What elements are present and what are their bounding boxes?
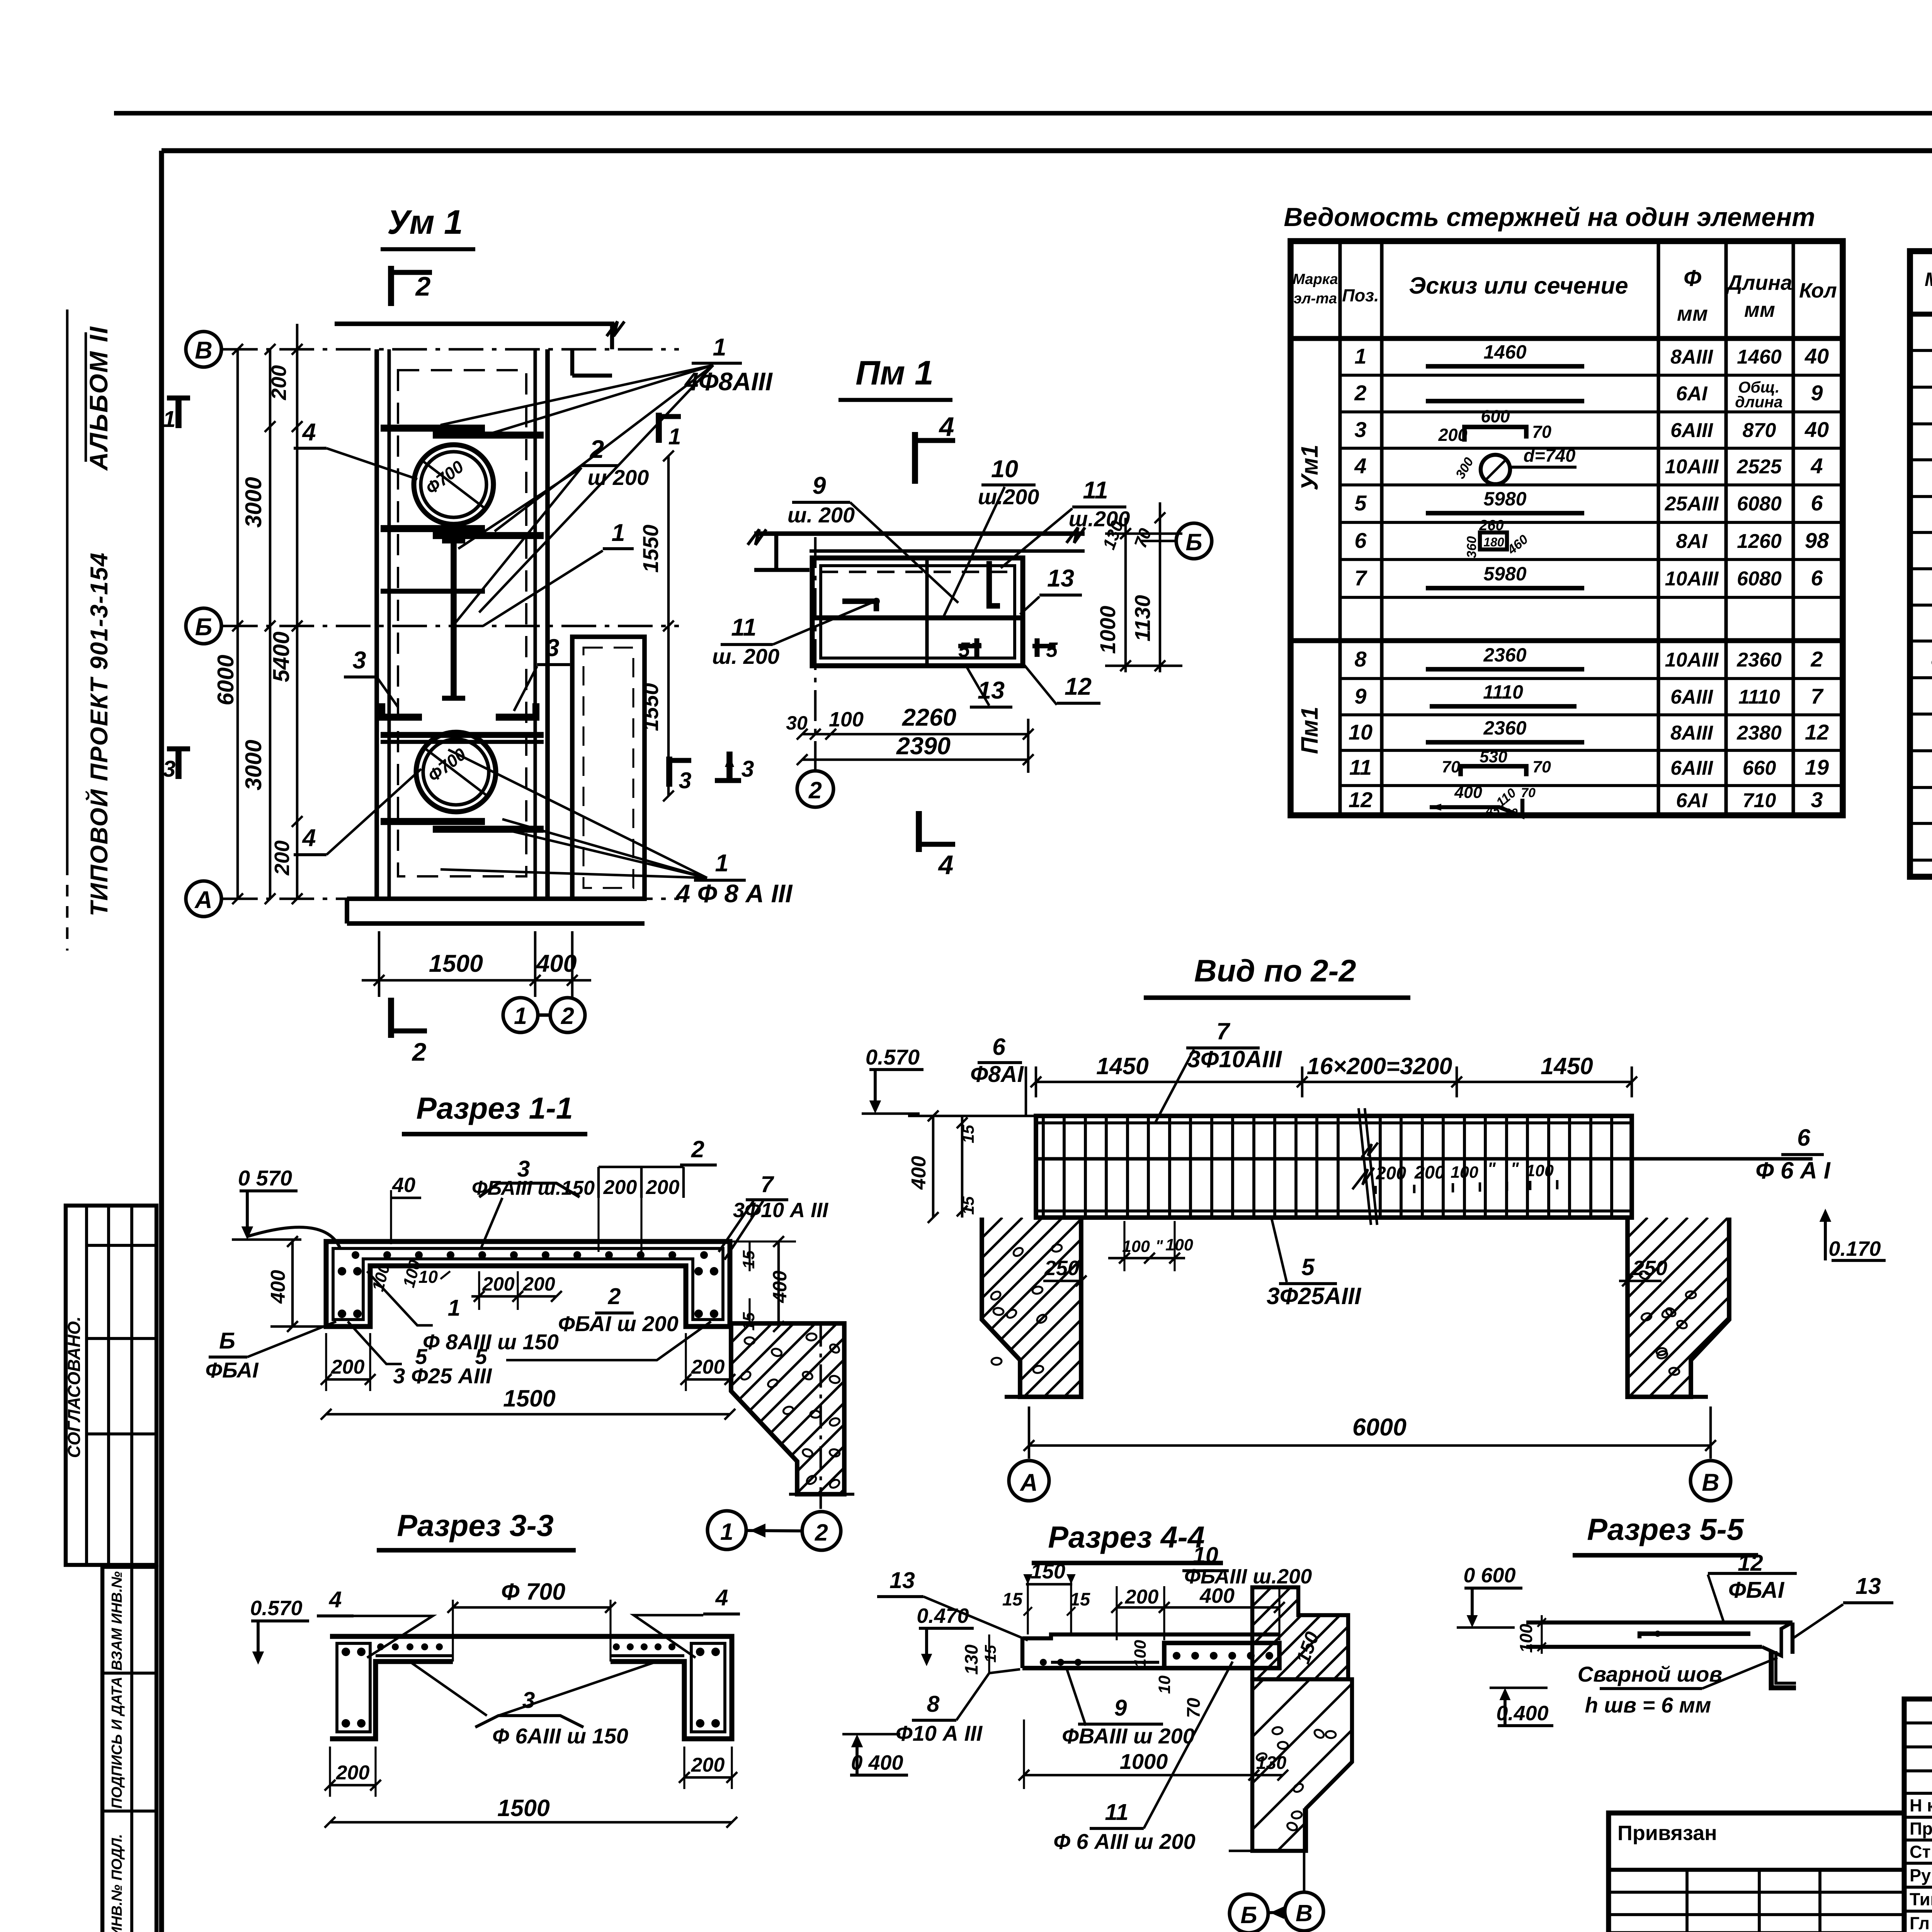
svg-text:ПОДПИСЬ И ДАТА: ПОДПИСЬ И ДАТА — [109, 1677, 125, 1809]
svg-text:d=740: d=740 — [1524, 445, 1576, 466]
svg-text:Длина: Длина — [1726, 271, 1792, 294]
Разрез 1-1 channel section outline — [326, 1242, 730, 1327]
svg-text:3: 3 — [1811, 787, 1823, 812]
Ум1 adjacent slab (lower right, Пм1 position) — [572, 637, 645, 899]
svg-text:100: 100 — [829, 708, 864, 731]
svg-text:5980: 5980 — [1483, 488, 1526, 510]
svg-text:200: 200 — [603, 1176, 637, 1199]
svg-text:1000: 1000 — [1095, 606, 1120, 654]
Пм1 section marks 5-5 — [958, 644, 981, 648]
svg-text:3: 3 — [546, 634, 559, 662]
svg-text:h шв = 6 мм: h шв = 6 мм — [1585, 1693, 1711, 1717]
svg-text:Ф 700: Ф 700 — [501, 1578, 565, 1605]
Разрез 3-3 dim 1500 — [330, 1821, 732, 1824]
Разрез 5-5 corner angle bracket — [1771, 1651, 1796, 1688]
svg-text:2: 2 — [1354, 381, 1366, 405]
svg-text:4: 4 — [938, 850, 954, 880]
Вид 2-2 left support texture dots — [1012, 1246, 1024, 1257]
margin stamp box СОГЛАСОВАНО — [66, 1206, 156, 1565]
svg-text:2360: 2360 — [1483, 644, 1526, 666]
svg-text:15: 15 — [981, 1645, 999, 1663]
svg-text:0 600: 0 600 — [1463, 1564, 1515, 1587]
svg-text:Б: Б — [1240, 1902, 1257, 1928]
svg-text:8: 8 — [927, 1691, 940, 1717]
Ум1 section mark 2 (bottom) — [388, 998, 394, 1038]
svg-text:1460: 1460 — [1483, 341, 1526, 363]
svg-text:4: 4 — [715, 1585, 728, 1611]
svg-text:Ф 6АIII ш 150: Ф 6АIII ш 150 — [492, 1724, 628, 1748]
svg-text:Пм1: Пм1 — [1296, 707, 1323, 754]
svg-text:Поз.: Поз. — [1342, 286, 1379, 305]
svg-text:11: 11 — [1105, 1799, 1128, 1825]
svg-text:6АIII: 6АIII — [1670, 419, 1713, 442]
svg-text:11: 11 — [1349, 755, 1372, 779]
svg-text:45°: 45° — [1486, 804, 1505, 818]
svg-text:Ф 6 АIII ш 200: Ф 6 АIII ш 200 — [1053, 1829, 1195, 1854]
Вид 2-2 right support hatching — [1607, 1218, 1729, 1397]
svg-text:Разрез 5-5: Разрез 5-5 — [1587, 1512, 1744, 1546]
svg-text:200: 200 — [482, 1273, 515, 1295]
svg-text:В: В — [1702, 1469, 1719, 1496]
svg-text:10: 10 — [991, 456, 1018, 483]
Вид 2-2 right support texture dots — [1665, 1306, 1677, 1318]
Разрез 3-3 dim Ф700 — [453, 1606, 611, 1609]
Пм1 rebar hook pos 11 (left) — [842, 601, 876, 611]
svg-text:98: 98 — [1805, 528, 1829, 553]
Пм1 bottom dims 30 100 2260 — [802, 733, 1028, 736]
svg-text:6000: 6000 — [1352, 1414, 1406, 1441]
svg-text:1: 1 — [448, 1295, 461, 1321]
Ум1 rebar bars pos 1 (mid pair) — [381, 525, 485, 532]
svg-text:200: 200 — [522, 1273, 555, 1295]
Пм1 section mark 4 (top) — [912, 432, 918, 484]
svg-text:9: 9 — [1114, 1695, 1127, 1721]
Разрез 1-1 dims 200 200 (lower) — [471, 1295, 556, 1298]
svg-text:Привязан: Привязан — [1617, 1821, 1717, 1845]
Разрез 1-1 rebar dots top chord — [352, 1251, 359, 1259]
svg-text:15: 15 — [740, 1250, 758, 1269]
svg-text:6АI: 6АI — [1676, 383, 1708, 405]
svg-text:ш 200: ш 200 — [588, 465, 649, 490]
Ум1 grid line Б — [223, 625, 679, 628]
svg-text:Б: Б — [219, 1328, 235, 1354]
svg-text:1550: 1550 — [638, 683, 663, 731]
svg-text:70: 70 — [1532, 758, 1551, 776]
svg-text:4: 4 — [939, 412, 954, 442]
Разрез 1-1 rebar dots right flange — [694, 1267, 703, 1276]
Вид 2-2 left support hatching — [962, 1218, 1081, 1397]
Ум1 section mark 1 (right) — [656, 413, 662, 443]
svg-text:5: 5 — [475, 1344, 487, 1369]
svg-text:100: 100 — [1131, 1640, 1150, 1668]
svg-text:В: В — [1296, 1900, 1313, 1926]
svg-text:400: 400 — [267, 1270, 289, 1304]
title block: signature table — [1904, 1699, 1932, 1932]
Вид 2-2 left support — [982, 1218, 1081, 1397]
Разрез 5-5 slab — [1526, 1621, 1793, 1624]
Ум1 wall inner left — [387, 349, 391, 899]
svg-text:1: 1 — [514, 1003, 527, 1029]
sheet outer top edge line — [114, 111, 1932, 116]
Разрез 4-4 dim 200 400 — [1116, 1586, 1117, 1640]
svg-text:12: 12 — [1805, 720, 1829, 744]
margin stamp box ВЗАМ ИНВ / ПОДПИСЬ И ДАТА / ИНВ ПОДЛ — [102, 1567, 156, 1932]
svg-text:0.570: 0.570 — [250, 1597, 302, 1620]
svg-text:250: 250 — [1632, 1257, 1667, 1280]
svg-text:5400: 5400 — [269, 631, 294, 682]
Разрез 1-1 right hatched support — [731, 1323, 844, 1494]
svg-text:200: 200 — [1125, 1586, 1159, 1608]
svg-text:15: 15 — [959, 1124, 978, 1143]
Пм1 slab mid bar — [812, 616, 1023, 621]
svg-text:870: 870 — [1743, 419, 1776, 442]
svg-text:6: 6 — [1811, 566, 1823, 590]
svg-text:5980: 5980 — [1483, 563, 1526, 585]
Ум1 grid bubble А — [186, 881, 221, 917]
Разрез 4-4 right thick box — [1164, 1643, 1279, 1668]
Ум1 bottom band — [347, 896, 645, 901]
Вид 2-2 bottom dim 6000 — [1029, 1444, 1711, 1447]
svg-text:13: 13 — [889, 1568, 915, 1593]
svg-text:3: 3 — [679, 768, 692, 793]
svg-text:6АIII: 6АIII — [1670, 757, 1713, 779]
svg-text:Ф10 А III: Ф10 А III — [896, 1721, 983, 1745]
svg-text:12: 12 — [1349, 787, 1372, 812]
sheet inner frame left border — [159, 151, 164, 1932]
Пм1 top slab edge lines — [754, 531, 1085, 536]
svg-text:ш. 200: ш. 200 — [787, 503, 855, 527]
svg-text:200: 200 — [1376, 1163, 1406, 1183]
svg-text:1: 1 — [720, 1519, 733, 1545]
svg-text:70: 70 — [1442, 758, 1460, 776]
svg-text:Ум1: Ум1 — [1296, 445, 1323, 491]
svg-text:6АI: 6АI — [1676, 789, 1708, 812]
svg-text:16×200=3200: 16×200=3200 — [1307, 1053, 1452, 1079]
Вид 2-2 stirrups — [1042, 1118, 1045, 1216]
Разрез 4-4 dim 1000 130 — [1024, 1774, 1283, 1777]
svg-text:70: 70 — [1521, 786, 1536, 800]
svg-text:2: 2 — [1810, 647, 1823, 671]
Разрез 4-4 hatched wall — [1252, 1587, 1348, 1679]
Разрез 4-4 slab left dots — [1040, 1659, 1047, 1666]
Разрез 1-1 big radius leader (left curve) — [247, 1227, 340, 1248]
svg-text:3000: 3000 — [241, 740, 266, 790]
svg-text:длина: длина — [1735, 393, 1782, 411]
Разрез 1-1 dim 1500 — [326, 1413, 730, 1416]
svg-text:Рук. гр: Рук. гр — [1910, 1866, 1932, 1885]
svg-text:Разрез 3-3: Разрез 3-3 — [397, 1508, 554, 1543]
Ум1 grid bubble Б — [186, 608, 221, 644]
Ум1 section mark 2 (top) — [388, 266, 394, 306]
svg-text:2360: 2360 — [1736, 649, 1782, 671]
svg-text:6080: 6080 — [1737, 568, 1782, 590]
svg-text:15: 15 — [1002, 1589, 1023, 1609]
svg-text:8АIII: 8АIII — [1670, 722, 1713, 744]
sheet inner frame top border — [162, 148, 1932, 153]
Ум1 bottom dimension line — [362, 979, 591, 982]
svg-text:400: 400 — [769, 1270, 791, 1303]
svg-text:0.570: 0.570 — [866, 1045, 920, 1069]
svg-text:1500: 1500 — [503, 1385, 556, 1412]
Вид 2-2 small dims 100 100 under beam — [1108, 1257, 1185, 1260]
svg-text:ФБАI ш 200: ФБАI ш 200 — [558, 1311, 679, 1336]
svg-text:2380: 2380 — [1736, 722, 1782, 744]
Ум1 section mark 3 (left) — [167, 747, 190, 752]
svg-text:70: 70 — [1532, 422, 1551, 442]
svg-text:1450: 1450 — [1541, 1053, 1593, 1079]
svg-text:эл-та: эл-та — [1294, 291, 1337, 307]
svg-text:2: 2 — [561, 1003, 574, 1029]
Вид 2-2 grid bubble В — [1690, 1461, 1731, 1501]
svg-text:Марка: Марка — [1293, 271, 1338, 287]
svg-text:200: 200 — [691, 1356, 725, 1378]
svg-text:А: А — [194, 886, 213, 913]
svg-text:2: 2 — [412, 1037, 427, 1066]
left margin rule — [66, 310, 69, 875]
svg-text:0.170: 0.170 — [1828, 1237, 1881, 1260]
svg-text:130: 130 — [961, 1645, 981, 1675]
svg-text:1500: 1500 — [429, 950, 483, 977]
svg-text:мм: мм — [1744, 298, 1775, 321]
svg-text:9: 9 — [812, 472, 826, 499]
svg-text:40: 40 — [1804, 417, 1829, 442]
svg-text:2: 2 — [808, 777, 822, 803]
Пм1 dashed top chord — [821, 571, 1015, 573]
Разрез 1-1 dim 200 (right flange) — [686, 1378, 730, 1381]
svg-text:3: 3 — [352, 647, 366, 674]
svg-text:Ф 6 А I: Ф 6 А I — [1755, 1157, 1830, 1184]
Вид 2-2 beam outline — [1036, 1116, 1632, 1218]
Вид 2-2 left dims 15 400 15 — [932, 1116, 935, 1218]
svg-text:7: 7 — [1354, 566, 1367, 590]
svg-text:Разрез 1-1: Разрез 1-1 — [416, 1091, 573, 1125]
Ум1 section mark 3 (right) — [666, 757, 672, 787]
Разрез 5-5 embedded bar — [1639, 1631, 1750, 1636]
Ум1 grid line А — [223, 898, 679, 900]
svg-text:6: 6 — [1354, 528, 1367, 553]
svg-text:4: 4 — [1354, 454, 1366, 478]
svg-text:19: 19 — [1805, 755, 1829, 779]
svg-text:2: 2 — [415, 271, 431, 301]
svg-text:0 570: 0 570 — [238, 1166, 292, 1190]
svg-text:5: 5 — [958, 638, 970, 662]
Пм1 bottom dim 2390 — [802, 759, 1028, 761]
Пм1 slab outline — [812, 558, 1023, 666]
svg-text:1500: 1500 — [497, 1795, 550, 1821]
svg-text:13: 13 — [1047, 565, 1074, 592]
svg-text:30: 30 — [786, 712, 808, 734]
svg-text:7: 7 — [1811, 684, 1824, 708]
svg-text:660: 660 — [1743, 757, 1776, 779]
svg-text:мм: мм — [1677, 302, 1708, 325]
svg-text:7: 7 — [1216, 1018, 1231, 1044]
svg-text:ФВАIII ш 200: ФВАIII ш 200 — [1062, 1724, 1195, 1748]
svg-text:Кол: Кол — [1799, 279, 1837, 302]
svg-text:ш.200: ш.200 — [1069, 507, 1130, 531]
svg-text:ш.200: ш.200 — [978, 485, 1039, 509]
svg-text:6: 6 — [1811, 491, 1823, 515]
svg-text:2: 2 — [691, 1136, 704, 1162]
svg-text:710: 710 — [1743, 789, 1776, 812]
Пм1 right dim verticals — [1124, 518, 1127, 672]
svg-text:400: 400 — [908, 1156, 930, 1190]
svg-text:10: 10 — [1155, 1675, 1174, 1694]
svg-text:10АIII: 10АIII — [1665, 649, 1719, 671]
Разрез 1-1 grid bubbles 1 2 — [707, 1511, 746, 1549]
svg-text:530: 530 — [1480, 748, 1507, 766]
svg-text:ФБАIII ш.200: ФБАIII ш.200 — [1184, 1565, 1312, 1588]
svg-text:Ф 8АIII ш 150: Ф 8АIII ш 150 — [423, 1330, 559, 1354]
Пм1 grid dash-dot vertical — [814, 537, 817, 773]
svg-text:1: 1 — [611, 519, 625, 546]
svg-text:13: 13 — [1855, 1573, 1881, 1599]
svg-text:2: 2 — [815, 1519, 828, 1546]
svg-text:7: 7 — [761, 1172, 775, 1197]
Разрез 4-4 grid bubbles Б В — [1230, 1894, 1268, 1932]
svg-text:8АIII: 8АIII — [1670, 346, 1713, 368]
svg-text:Сварной шов: Сварной шов — [1578, 1662, 1723, 1686]
svg-text:ФБАI: ФБАI — [205, 1358, 259, 1382]
svg-text:15: 15 — [959, 1196, 978, 1215]
svg-text:0 400: 0 400 — [851, 1751, 903, 1774]
svg-text:5: 5 — [1046, 638, 1058, 662]
svg-text:9: 9 — [1354, 684, 1366, 708]
svg-text:4: 4 — [329, 1587, 342, 1612]
svg-text:70: 70 — [1183, 1698, 1204, 1718]
svg-text:3: 3 — [1354, 417, 1366, 442]
svg-text:Ум 1: Ум 1 — [387, 203, 463, 241]
svg-text:СОГЛАСОВАНО.: СОГЛАСОВАНО. — [64, 1316, 84, 1458]
Ум1 grid bubble В — [186, 332, 221, 367]
svg-text:10: 10 — [418, 1267, 438, 1287]
svg-text:": " — [1155, 1237, 1163, 1255]
Ум1 vertical bar pos 2 — [451, 539, 457, 700]
svg-text:Ф8АI: Ф8АI — [970, 1061, 1024, 1087]
svg-text:1: 1 — [668, 424, 681, 449]
svg-text:100: 100 — [1526, 1162, 1554, 1180]
svg-text:200: 200 — [331, 1356, 365, 1378]
svg-text:10АIII: 10АIII — [1665, 568, 1719, 590]
Разрез 1-1 dim 400 left — [291, 1242, 294, 1327]
svg-text:15: 15 — [1070, 1589, 1090, 1609]
svg-text:360: 360 — [1464, 536, 1479, 558]
svg-text:6: 6 — [1797, 1124, 1811, 1151]
svg-text:200: 200 — [1438, 425, 1467, 445]
svg-text:200: 200 — [267, 365, 291, 400]
svg-text:5: 5 — [1301, 1254, 1315, 1280]
svg-text:1: 1 — [713, 334, 726, 361]
svg-text:ИНВ.№ ПОДЛ.: ИНВ.№ ПОДЛ. — [109, 1834, 125, 1932]
svg-text:5: 5 — [1354, 491, 1367, 515]
svg-text:3: 3 — [742, 756, 754, 782]
svg-text:260: 260 — [1479, 517, 1503, 534]
svg-text:200: 200 — [646, 1176, 680, 1199]
Ум1 rebar bars pos 1 (lower pair) — [381, 818, 485, 825]
Ум1 dimension verticals — [236, 349, 239, 899]
svg-text:": " — [1487, 1159, 1496, 1179]
svg-text:3Ф25АIII: 3Ф25АIII — [1267, 1283, 1361, 1309]
svg-text:2: 2 — [608, 1284, 621, 1309]
svg-text:400: 400 — [1454, 783, 1482, 802]
svg-text:В: В — [195, 337, 213, 364]
svg-text:3: 3 — [522, 1687, 535, 1713]
Разрез 1-1 right dims 15 400 15 — [748, 1242, 750, 1271]
svg-text:Проверил: Проверил — [1910, 1819, 1932, 1838]
Пм1 section mark 4 (bottom) — [916, 811, 922, 852]
svg-text:8: 8 — [1354, 647, 1367, 671]
Пм1 rebar hook pos 11 (right) — [989, 561, 1000, 606]
Пм1 grid bubble Б (right) — [1176, 523, 1212, 559]
svg-text:100: 100 — [1122, 1237, 1150, 1256]
svg-text:10: 10 — [1193, 1543, 1218, 1568]
Ум1 grid line В — [223, 348, 679, 351]
svg-text:2360: 2360 — [1483, 717, 1526, 739]
table Ведомость frame — [1291, 241, 1843, 815]
svg-text:АЛЬБОМ II: АЛЬБОМ II — [84, 326, 113, 471]
svg-text:200: 200 — [270, 840, 294, 876]
svg-text:Б: Б — [1185, 529, 1202, 555]
Ум1 rebar bars below brackets — [381, 732, 544, 738]
Разрез 3-3 dim 200 right — [684, 1776, 732, 1779]
Пм1 slab inner vertical — [925, 558, 929, 666]
Вид 2-2 top dimension line — [1036, 1081, 1632, 1083]
svg-text:10АIII: 10АIII — [1665, 456, 1719, 478]
svg-text:130: 130 — [1256, 1752, 1286, 1773]
Ум1 dim 1550 (lower) — [667, 626, 670, 796]
svg-text:100: 100 — [1451, 1163, 1478, 1182]
svg-text:Ф: Ф — [1684, 265, 1701, 291]
svg-text:11: 11 — [731, 614, 756, 641]
Разрез 1-1 rebar dots left flange — [338, 1267, 346, 1276]
svg-text:2390: 2390 — [896, 733, 951, 760]
svg-text:250: 250 — [1044, 1257, 1079, 1280]
svg-text:1: 1 — [715, 850, 728, 877]
svg-text:9: 9 — [1811, 381, 1823, 405]
svg-text:1: 1 — [163, 406, 176, 432]
title block: Привязан sub-table — [1609, 1813, 1904, 1932]
svg-text:ФБАI: ФБАI — [1728, 1577, 1785, 1603]
svg-text:ФБАIII ш.150: ФБАIII ш.150 — [472, 1177, 595, 1199]
svg-text:3Ф10АIII: 3Ф10АIII — [1187, 1046, 1282, 1072]
Вид 2-2 spacing texts 200 200 100 — [1352, 1168, 1374, 1189]
svg-text:2525: 2525 — [1736, 456, 1782, 478]
svg-text:200: 200 — [336, 1762, 370, 1784]
svg-text:6080: 6080 — [1737, 493, 1782, 515]
svg-text:1550: 1550 — [638, 525, 663, 573]
svg-text:100: 100 — [1165, 1236, 1193, 1254]
svg-text:8АI: 8АI — [1676, 530, 1708, 553]
svg-text:1110: 1110 — [1483, 681, 1523, 703]
svg-text:4: 4 — [301, 825, 316, 852]
svg-text:200: 200 — [691, 1754, 725, 1776]
Ум1 top slab edge line — [335, 321, 614, 326]
svg-text:0.470: 0.470 — [917, 1604, 969, 1628]
Разрез 1-1 dims 200 200 boxed — [597, 1167, 600, 1198]
Ум1 dashed opening rectangle — [398, 370, 526, 876]
svg-text:1130: 1130 — [1130, 595, 1155, 641]
svg-text:": " — [1510, 1159, 1519, 1179]
svg-text:30: 30 — [1504, 806, 1518, 820]
svg-text:1: 1 — [1354, 344, 1366, 368]
svg-text:6: 6 — [992, 1034, 1006, 1060]
Разрез 3-3 dim 200 left — [330, 1784, 376, 1787]
svg-text:1260: 1260 — [1737, 530, 1782, 553]
svg-text:Ст инж: Ст инж — [1910, 1842, 1932, 1862]
Ум1 rebar bar pos 1 (single) — [381, 589, 485, 594]
Ум1 rebar bars pos 1 (upper pair) — [381, 425, 485, 432]
svg-text:4: 4 — [1810, 454, 1823, 478]
svg-text:11: 11 — [1083, 477, 1108, 504]
